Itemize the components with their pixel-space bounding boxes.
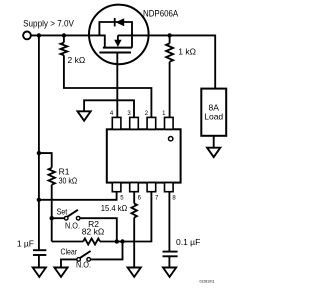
resistor 15.4 kOhm xyxy=(133,192,135,204)
ground Clear xyxy=(54,268,67,277)
resistor R1 30 kOhm xyxy=(39,153,52,168)
svg-text:N.O.: N.O. xyxy=(76,259,91,269)
pin 7 xyxy=(147,183,156,192)
ground C2 xyxy=(163,268,176,277)
ground C1 xyxy=(33,268,46,277)
wire Clear to ground xyxy=(61,259,77,267)
pin 6 xyxy=(130,183,139,192)
switch Clear N.O. xyxy=(87,258,91,262)
resistor R2 82 kOhm xyxy=(52,241,83,243)
pin 8 xyxy=(165,183,174,192)
transistor Q1 NDP606A P-channel MOSFET xyxy=(89,5,150,65)
resistor 2 k ohm xyxy=(63,35,65,42)
svg-text:Clear: Clear xyxy=(61,247,78,257)
junction node dot 1 xyxy=(115,239,119,243)
op-amp U1 IC body xyxy=(107,129,181,182)
svg-text:82 kΩ: 82 kΩ xyxy=(82,227,104,237)
pin 3 xyxy=(130,117,139,129)
load 8A xyxy=(201,89,226,136)
junction node dot 2 xyxy=(120,239,124,243)
switch Set N.O. xyxy=(52,217,65,219)
wire supply rail down to C1 xyxy=(38,35,40,250)
svg-text:NDP606A: NDP606A xyxy=(143,9,179,20)
wire pin 3 to ground xyxy=(84,100,134,117)
svg-text:30 kΩ: 30 kΩ xyxy=(59,176,78,186)
wire pin 5 to supply rail xyxy=(39,192,117,200)
svg-text:01281911: 01281911 xyxy=(200,279,216,284)
pin 5 xyxy=(112,183,121,192)
junction supply rail xyxy=(37,33,41,37)
wire R1 to Set and R2 xyxy=(51,185,53,242)
resistor 1 k ohm xyxy=(169,35,171,43)
junction Set branch xyxy=(50,216,54,220)
wire supply to MOSFET source xyxy=(31,34,89,36)
junction rail / pin5 line xyxy=(37,198,41,202)
junction drain node xyxy=(167,33,171,37)
svg-text:Load: Load xyxy=(204,111,223,121)
pin 1 indicator xyxy=(169,137,173,141)
wire gate to pin 4 xyxy=(116,53,118,118)
pin 2 xyxy=(147,117,156,129)
wire 15.4k to ground xyxy=(133,218,135,268)
svg-text:N.O.: N.O. xyxy=(65,221,80,231)
wire pin 8 to C2 xyxy=(168,192,170,252)
svg-text:2 kΩ: 2 kΩ xyxy=(68,55,86,65)
wire node to Clear switch xyxy=(91,242,123,260)
junction R 2k tap xyxy=(62,33,66,37)
ground load xyxy=(207,148,220,157)
svg-text:1 µF: 1 µF xyxy=(17,238,34,248)
wire trigger node line xyxy=(100,192,151,242)
capacitor C2 0.1uF xyxy=(163,251,178,253)
junction rail / R1 branch xyxy=(37,151,41,155)
wire 1k to pin 1 xyxy=(169,62,171,118)
svg-text:0.1 µF: 0.1 µF xyxy=(176,237,200,247)
svg-text:15.4 kΩ: 15.4 kΩ xyxy=(101,203,128,213)
svg-text:Set: Set xyxy=(57,206,68,216)
pin 1 xyxy=(165,117,174,129)
wire C1 to ground xyxy=(38,255,40,268)
pin 4 xyxy=(112,117,121,129)
ground pin 3 xyxy=(78,111,91,120)
wire Set to node xyxy=(80,218,117,241)
wire 2k to pin 2 xyxy=(64,55,151,117)
svg-text:Supply > 7.0V: Supply > 7.0V xyxy=(23,18,74,28)
node Supply terminal xyxy=(23,32,31,40)
capacitor C1 1uF xyxy=(33,249,46,251)
wire C2 to ground xyxy=(168,256,170,267)
svg-text:1 kΩ: 1 kΩ xyxy=(178,47,196,57)
wire load to ground xyxy=(213,136,215,148)
wire drain to load xyxy=(150,35,216,88)
ground 15.4k xyxy=(128,268,141,277)
